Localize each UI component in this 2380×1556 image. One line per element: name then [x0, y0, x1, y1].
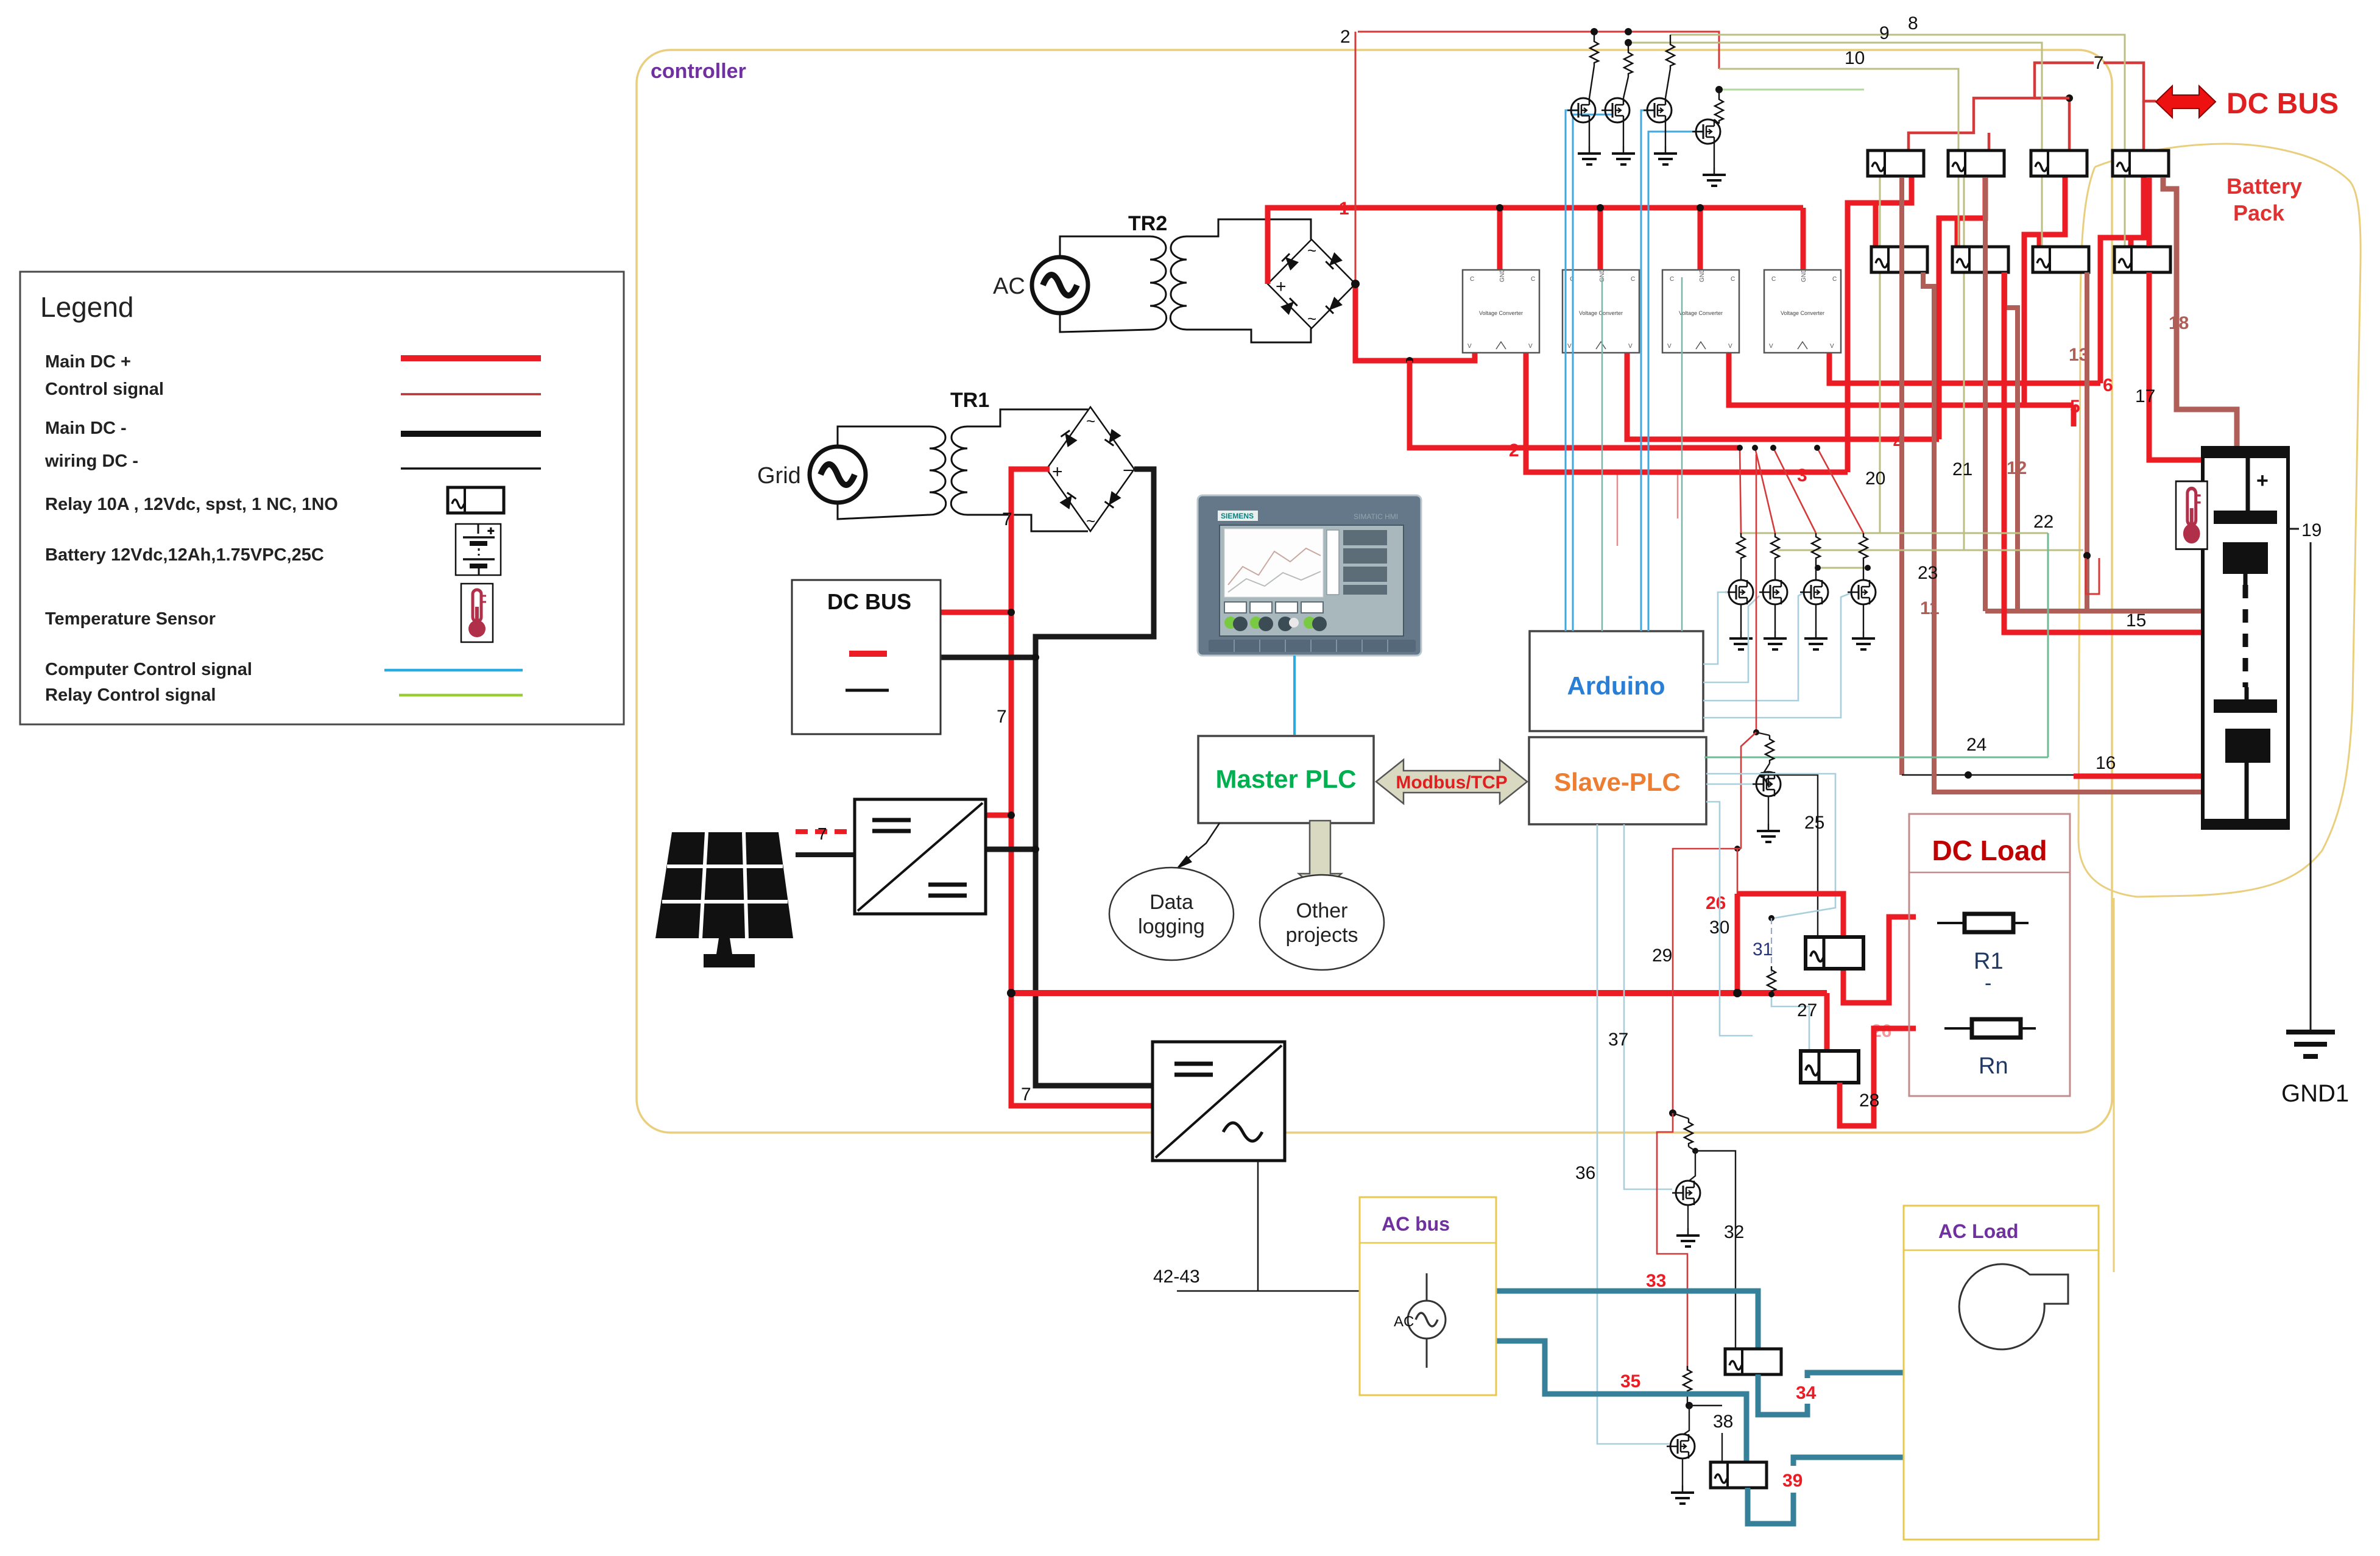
- wire 28 (K28 to Rn load): [1840, 1028, 1916, 1126]
- legend: wiring DC - sample line: [401, 467, 541, 470]
- DC BUS red symbol: [849, 651, 887, 657]
- wire: K31 to R1 load: [1843, 917, 1916, 1003]
- Arduino box: [1530, 631, 1703, 731]
- solar panel PV1: [655, 832, 793, 967]
- svg-text:+: +: [2256, 469, 2269, 492]
- voltage converter VC1: [1463, 269, 1539, 353]
- wire 27 (pale blue): [1771, 994, 1809, 1052]
- svg-text:AC: AC: [993, 274, 1025, 299]
- DC/AC inverter U3: [1153, 1042, 1285, 1161]
- legend: relay control signal sample line: [399, 694, 523, 697]
- svg-text:Relay 10A , 12Vdc, spst, 1 NC,: Relay 10A , 12Vdc, spst, 1 NC, 1NO: [45, 495, 338, 514]
- wire 39 (to AC load): [1748, 1457, 1992, 1524]
- resistor Rm1: [1756, 732, 1770, 735]
- ground for Q1: [1589, 122, 1590, 146]
- wire: TR1 + output (red trunk down left side): [1011, 469, 1153, 1106]
- ground for Q8: [1863, 604, 1864, 631]
- svg-text:Data: Data: [1149, 891, 1193, 914]
- wire: Arduino aux (teal-blue): [1601, 277, 1603, 631]
- wire: col1 riser to relay K1: [1848, 152, 1912, 472]
- svg-text:3: 3: [1797, 465, 1807, 486]
- node: solar converter black tap: [986, 847, 1036, 852]
- wire: control drop to 26/29: [1741, 732, 1756, 849]
- svg-text:Grid: Grid: [757, 463, 801, 489]
- wire 29 lower chain: [1657, 1113, 1687, 1371]
- svg-text:Voltage Converter: Voltage Converter: [1479, 310, 1523, 316]
- wire 15 (to battery): [2004, 272, 2203, 632]
- svg-text:Battery: Battery: [2226, 174, 2302, 199]
- wire 32 (to relay K34): [1695, 1151, 1736, 1353]
- wire 31 sense chain: [1771, 918, 1772, 974]
- svg-text:projects: projects: [1285, 924, 1358, 947]
- svg-text:25: 25: [1804, 813, 1824, 833]
- svg-text:controller: controller: [651, 60, 746, 83]
- svg-text:Main DC -: Main DC -: [45, 419, 127, 438]
- relay K6: [1952, 247, 2008, 272]
- node: Q2 top tap: [1625, 28, 1632, 35]
- svg-text:28: 28: [1859, 1091, 1879, 1111]
- node: DC BUS black tap: [941, 655, 1036, 660]
- voltage converter VC2: [1563, 269, 1639, 353]
- wire: Arduino to gate Q3 (blue): [1641, 110, 1654, 631]
- svg-text:Temperature Sensor: Temperature Sensor: [45, 609, 216, 629]
- svg-text:29: 29: [1652, 946, 1672, 966]
- resistor Q7r: [1812, 533, 1820, 561]
- ground GND1: [2286, 1032, 2335, 1056]
- relay K31: [1806, 937, 1863, 969]
- Modbus/TCP arrow: [1376, 760, 1527, 804]
- svg-text:DC BUS: DC BUS: [827, 589, 911, 614]
- svg-text:Relay Control signal: Relay Control signal: [45, 685, 216, 705]
- svg-text:1: 1: [1339, 199, 1349, 219]
- svg-text:V: V: [1728, 343, 1732, 350]
- svg-text:2: 2: [1509, 440, 1519, 461]
- wire 5 (VC3 Vout): [1729, 353, 2074, 405]
- svg-text:13: 13: [2069, 345, 2089, 365]
- node: DC BUS red tap: [941, 610, 1011, 615]
- svg-text:SIMATIC HMI: SIMATIC HMI: [1354, 512, 1398, 521]
- temperature sensor at battery: [2176, 481, 2207, 549]
- wire 37 (pale blue): [1624, 824, 1672, 1189]
- wire 16 (K1 to battery, mixed): [1899, 177, 1904, 775]
- transistor Q3: [1665, 69, 1670, 98]
- svg-text:37: 37: [1608, 1030, 1628, 1050]
- voltage converter VC4: [1764, 269, 1841, 353]
- Grid source: [810, 447, 866, 503]
- relay K39: [1711, 1462, 1767, 1488]
- resistor Rn2: [1673, 1113, 1689, 1119]
- resistor R3a: [1666, 41, 1675, 69]
- legend: Control signal sample line: [401, 393, 541, 395]
- legend: Main DC + sample line: [401, 355, 541, 361]
- svg-text:R1: R1: [1974, 949, 2004, 974]
- transistor Q9: [1762, 772, 1768, 786]
- transistor Q8: [1863, 561, 1864, 580]
- svg-text:Arduino: Arduino: [1567, 671, 1665, 700]
- transistor Q1: [1589, 66, 1594, 98]
- svg-text:15: 15: [2126, 610, 2146, 631]
- ground for Q7: [1815, 604, 1817, 631]
- svg-text:logging: logging: [1138, 915, 1205, 938]
- svg-text:GND: GND: [1699, 269, 1706, 282]
- legend: Main DC - sample line: [401, 431, 541, 437]
- svg-text:Legend: Legend: [40, 291, 134, 323]
- wire: cluster drop (thin red): [1756, 454, 1757, 732]
- svg-text:DC BUS: DC BUS: [2226, 88, 2339, 120]
- svg-text:12: 12: [2007, 458, 2027, 478]
- wire: pale blue gate feed Qa: [1706, 783, 1753, 785]
- ground for Q3: [1665, 122, 1666, 146]
- wire 13 (K7 to battery): [2085, 272, 2089, 611]
- svg-text:9: 9: [1879, 23, 1890, 43]
- svg-text:19: 19: [2301, 520, 2322, 540]
- svg-text:+: +: [1276, 277, 1287, 297]
- wire 11 (K5 to battery): [1923, 272, 2203, 792]
- transformer TR2 secondary: [1170, 236, 1187, 330]
- wire 22 (relay control to battery zone): [1740, 532, 2048, 534]
- wire: row2 K6 tap: [1955, 218, 1960, 247]
- node m1: [1762, 763, 1770, 775]
- transistor Q11: [1684, 1406, 1689, 1434]
- wire: main bus into relay K28: [1824, 993, 1830, 1052]
- svg-text:+: +: [487, 525, 495, 538]
- svg-text:Rn: Rn: [1979, 1053, 2008, 1079]
- svg-text:Master PLC: Master PLC: [1215, 765, 1356, 793]
- svg-text:+: +: [1052, 462, 1063, 482]
- fan load icon: [1959, 1264, 2068, 1349]
- resistor R1a: [1590, 38, 1598, 66]
- resistor Q5r: [1737, 533, 1745, 561]
- resistor Q8r: [1859, 533, 1868, 561]
- svg-text:C: C: [1470, 276, 1474, 283]
- wire 34 (to AC load): [1758, 1373, 1986, 1415]
- svg-text:AC bus: AC bus: [1382, 1213, 1450, 1235]
- svg-text:7: 7: [2094, 53, 2104, 73]
- ground Q11: [1682, 1459, 1683, 1485]
- wire 35 (AC return): [1496, 1341, 1746, 1463]
- svg-text:~: ~: [1307, 241, 1316, 260]
- svg-text:8: 8: [1908, 13, 1918, 34]
- wire 26 (left arm): [1735, 894, 1740, 993]
- svg-text:Voltage Converter: Voltage Converter: [1781, 310, 1824, 316]
- svg-text:20: 20: [1865, 469, 1885, 489]
- svg-text:Voltage Converter: Voltage Converter: [1579, 310, 1623, 316]
- resistor R1: [1937, 914, 2029, 932]
- legend: temperature sensor symbol: [461, 584, 493, 642]
- wire 19 and GND1: [2288, 528, 2299, 530]
- node: solar converter red tap: [986, 813, 1011, 818]
- svg-text:wiring DC -: wiring DC -: [44, 451, 138, 471]
- relay K8: [2114, 247, 2170, 272]
- wire 26 risers: [1737, 849, 1739, 894]
- wire 9 (relay control): [1628, 43, 2042, 247]
- wire 24 (green, slave PLC): [2047, 533, 2049, 757]
- transistor Q5: [1740, 561, 1742, 580]
- controller boundary box: [637, 50, 2112, 1133]
- Other projects ellipse: [1260, 875, 1384, 970]
- svg-text:21: 21: [1952, 459, 1972, 479]
- svg-text:C: C: [1832, 276, 1837, 283]
- svg-text:AC Load: AC Load: [1938, 1220, 2019, 1242]
- AC Load box: [1904, 1206, 2099, 1540]
- svg-text:32: 32: [1724, 1222, 1744, 1242]
- relay K4: [2113, 150, 2169, 176]
- wire jog (pale red jumper): [1617, 474, 1678, 546]
- AC source: [1032, 257, 1088, 313]
- legend box: [20, 272, 624, 724]
- wire: HMI to Master PLC (cyan): [1293, 656, 1296, 735]
- svg-text:~: ~: [1086, 512, 1095, 530]
- svg-text:31: 31: [1753, 939, 1773, 960]
- svg-text:27: 27: [1797, 1000, 1817, 1020]
- svg-text:6: 6: [2103, 375, 2113, 395]
- transistor Q6: [1774, 561, 1776, 580]
- wire drop to Q6: [1755, 448, 1775, 533]
- wire 20 (relay control): [1879, 177, 1881, 533]
- svg-text:Other: Other: [1296, 899, 1347, 922]
- wire: main DC+ bus to loads (long red horizontal): [1011, 990, 1827, 996]
- resistor Rn: [1944, 1019, 2036, 1038]
- legend: computer control signal sample line: [384, 669, 523, 672]
- svg-text:36: 36: [1575, 1163, 1595, 1183]
- svg-text:Main DC +: Main DC +: [45, 352, 131, 372]
- svg-text:Computer Control signal: Computer Control signal: [45, 660, 252, 679]
- svg-text:AC: AC: [1394, 1314, 1414, 1330]
- wire 2 (control, thin red): [1358, 32, 1719, 69]
- voltage converter VC3: [1662, 269, 1739, 353]
- battery pack cloud outline: [2078, 144, 2361, 1272]
- relay K28: [1801, 1051, 1859, 1083]
- wire 3 (VC1 Vout): [1526, 353, 1848, 472]
- wire: row2 K7 tap: [2037, 235, 2043, 247]
- wire 10 (relay control): [1719, 69, 1958, 247]
- wire: PV- black: [796, 852, 855, 857]
- wire: Arduino to gate Q2 (blue): [1572, 280, 1574, 631]
- transformer TR2 primary: [1060, 236, 1150, 257]
- wire: row2 K8 tap: [2128, 238, 2134, 247]
- svg-text:39: 39: [1782, 1471, 1803, 1491]
- svg-text:-: -: [1985, 972, 1991, 995]
- svg-text:~: ~: [1086, 412, 1095, 430]
- wire 33 (AC hot): [1496, 1291, 1758, 1353]
- relay K2: [1948, 150, 2004, 176]
- svg-text:Battery 12Vdc,12Ah,1.75VPC,25C: Battery 12Vdc,12Ah,1.75VPC,25C: [45, 545, 324, 565]
- resistor R2a: [1624, 49, 1633, 77]
- relay K1: [1868, 150, 1924, 176]
- legend: battery symbol: [456, 524, 501, 575]
- svg-text:C: C: [1771, 276, 1776, 283]
- wire drop to Q8: [1817, 448, 1863, 533]
- wire 21 (relay control): [1963, 177, 1965, 550]
- svg-text:7: 7: [1021, 1084, 1031, 1105]
- wire 29 (thin red): [1673, 849, 1741, 1113]
- svg-text:GND: GND: [1499, 269, 1506, 282]
- transistor Q4: [1714, 119, 1719, 124]
- svg-text:TR1: TR1: [950, 389, 989, 412]
- svg-text:23: 23: [1918, 563, 1938, 583]
- Data logging ellipse: [1109, 868, 1234, 960]
- svg-text:22: 22: [2033, 512, 2053, 532]
- svg-text:V: V: [1830, 343, 1834, 350]
- legend: relay symbol: [448, 487, 504, 513]
- wire 12 (K6 to battery bundle): [2005, 272, 2018, 611]
- svg-text:10: 10: [1845, 48, 1865, 68]
- relay K34: [1725, 1349, 1781, 1374]
- ground for Q2: [1623, 122, 1624, 146]
- wire: col3 riser to relay K3: [2024, 152, 2065, 405]
- svg-text:TR2: TR2: [1128, 212, 1167, 235]
- transistor Q2: [1623, 77, 1628, 98]
- wire 25 (to relay K31): [1762, 775, 1818, 946]
- svg-text:Voltage Converter: Voltage Converter: [1679, 310, 1723, 316]
- ground Q9: [1768, 796, 1769, 824]
- svg-text:26: 26: [1706, 893, 1726, 913]
- svg-text:C: C: [1670, 276, 1674, 283]
- svg-text:35: 35: [1620, 1371, 1640, 1392]
- svg-text:11: 11: [1920, 598, 1940, 618]
- svg-text:7: 7: [817, 824, 827, 843]
- svg-text:Modbus/TCP: Modbus/TCP: [1396, 773, 1507, 793]
- svg-text:Slave-PLC: Slave-PLC: [1554, 768, 1681, 796]
- relay K3: [2031, 150, 2087, 176]
- HMI panel (Siemens): [1198, 495, 1421, 656]
- transformer TR1 primary: [838, 426, 930, 447]
- wire stub (green tap at Q4): [1719, 89, 1864, 91]
- arrow: Master PLC to Data logging: [1184, 823, 1220, 862]
- Slave PLC box: [1529, 737, 1706, 824]
- wire 29 tail: [1669, 1109, 1676, 1117]
- svg-text:SIEMENS: SIEMENS: [1221, 512, 1254, 520]
- wire drop to Q7: [1773, 448, 1816, 533]
- wire 23 (relay control): [1778, 550, 2083, 551]
- svg-text:V: V: [1528, 343, 1533, 350]
- wire 26 (thick red to relay K31): [1737, 894, 1843, 938]
- AC bus box: [1360, 1197, 1496, 1395]
- wire: bridge2 output down to VC1 Vin: [1355, 284, 1475, 361]
- resistor R4a: [1715, 96, 1723, 124]
- wire 4 (VC2 Vout): [1627, 353, 1939, 439]
- wire 6 (VC4 Vout): [1829, 353, 2100, 383]
- svg-text:7: 7: [997, 707, 1007, 727]
- wire hook (red control jog at battery): [2086, 558, 2099, 594]
- arrow: Master PLC to Other projects: [1299, 821, 1341, 893]
- svg-text:42-43: 42-43: [1153, 1267, 1200, 1287]
- ground for Q6: [1774, 604, 1776, 631]
- wire (cluster link): [1818, 567, 1868, 569]
- wire 7 (battery + to DC BUS staircase): [2103, 63, 2156, 101]
- svg-text:DC Load: DC Load: [1932, 835, 2047, 866]
- DC BUS box: [792, 580, 941, 734]
- relay K5: [1871, 247, 1927, 272]
- DC/DC converter U2: [855, 799, 986, 914]
- svg-text:7: 7: [1002, 509, 1012, 529]
- wire: inverter to AC bus (42-43): [1257, 1161, 1259, 1291]
- wire: Arduino to gate Q4 (blue): [1648, 132, 1703, 631]
- DC BUS arrow symbol: [2156, 86, 2216, 118]
- relay K7: [2033, 247, 2089, 272]
- svg-text:38: 38: [1713, 1412, 1733, 1432]
- resistor Q6r: [1771, 533, 1779, 561]
- AC source in bus: [1426, 1273, 1428, 1301]
- wire: Arduino to gate Q1 (blue): [1566, 110, 1578, 631]
- svg-text:18: 18: [2169, 313, 2189, 333]
- bridge rectifier BR1: [1047, 407, 1134, 531]
- svg-text:Pack: Pack: [2233, 200, 2285, 225]
- battery pack BT1: [2203, 448, 2288, 828]
- Master PLC box: [1198, 736, 1374, 823]
- svg-text:GND: GND: [1801, 269, 1807, 282]
- bridge rectifier BR2: [1268, 239, 1355, 328]
- wire: PV+ dashed red: [796, 829, 855, 834]
- svg-text:V: V: [1467, 343, 1472, 350]
- svg-text:33: 33: [1646, 1271, 1666, 1291]
- svg-text:~: ~: [1307, 309, 1316, 328]
- DC Load box: [1909, 814, 2070, 1096]
- transistor Q10: [1689, 1151, 1695, 1181]
- svg-text:C: C: [1631, 276, 1635, 283]
- svg-text:Control signal: Control signal: [45, 380, 164, 399]
- wire 1 VC drops: [1497, 208, 1503, 272]
- svg-text:2: 2: [1340, 27, 1351, 47]
- wire 1 (main DC+ from TR2 bridge): [1268, 208, 1803, 284]
- ground for Q5: [1740, 604, 1742, 631]
- transistor Q7: [1815, 561, 1817, 580]
- svg-text:5: 5: [2070, 397, 2080, 417]
- wire 30 (pale blue from Slave): [1706, 774, 1835, 918]
- wire: pale blue gate feed Qb: [1706, 802, 1753, 1036]
- wire: row2 K5 tap: [1873, 203, 1879, 247]
- ground Q10: [1687, 1205, 1689, 1228]
- svg-text:V: V: [1667, 343, 1672, 350]
- svg-text:24: 24: [1966, 735, 1986, 755]
- svg-text:GND1: GND1: [2281, 1080, 2349, 1107]
- svg-text:C: C: [1531, 276, 1535, 283]
- svg-text:V: V: [1628, 343, 1633, 350]
- ground for Q4: [1714, 144, 1715, 168]
- svg-text:V: V: [1567, 343, 1572, 350]
- svg-text:34: 34: [1796, 1383, 1817, 1403]
- svg-text:V: V: [1769, 343, 1773, 350]
- wire 36 (pale blue): [1597, 824, 1669, 1444]
- wire 38: [1689, 1405, 1722, 1406]
- wire 2 lower horizontal: [1410, 361, 1740, 448]
- wire (K2 brown drop): [1983, 177, 1988, 611]
- wire: col2 riser to relay K2: [1939, 152, 1985, 439]
- wire 17 (K8 to battery): [2147, 177, 2152, 246]
- svg-text:17: 17: [2135, 386, 2155, 406]
- wire drop to Q5: [1740, 448, 1741, 533]
- wire: col4 riser to relay K4: [2100, 152, 2144, 383]
- wire 18 (K4 to battery top): [2163, 177, 2237, 449]
- svg-text:26: 26: [1871, 1021, 1891, 1041]
- svg-text:−: −: [1123, 461, 1134, 481]
- DC BUS black symbol: [846, 689, 889, 692]
- wire: TR1 - output (black trunk): [1036, 469, 1154, 1086]
- wire 8 (relay control): [1670, 35, 2125, 247]
- svg-text:16: 16: [2096, 753, 2116, 773]
- wires: Arduino to gates Q5-Q8 (pale blue): [1703, 592, 1728, 664]
- transformer TR1 secondary: [951, 426, 967, 515]
- svg-text:C: C: [1731, 276, 1735, 283]
